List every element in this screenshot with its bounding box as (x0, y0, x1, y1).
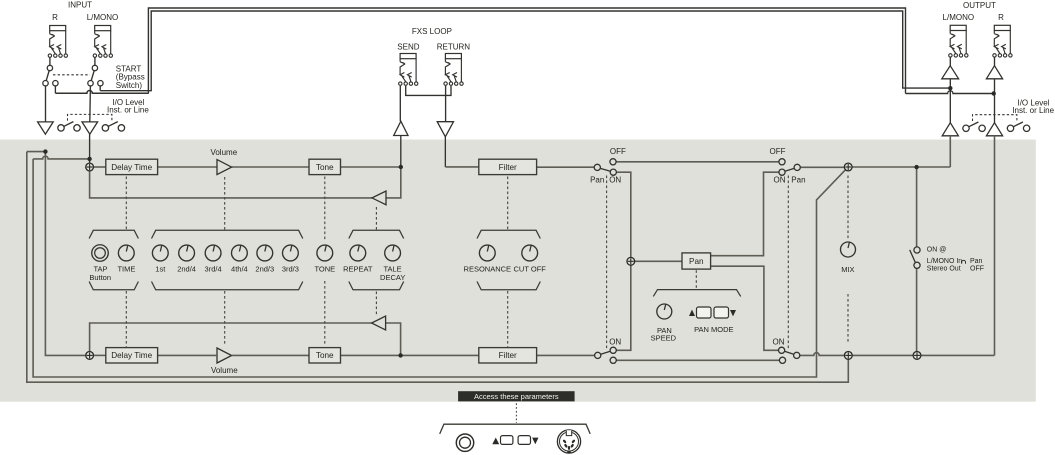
svg-text:RETURN: RETURN (437, 42, 471, 51)
svg-text:PAN MODE: PAN MODE (694, 325, 733, 334)
svg-text:SEND: SEND (397, 42, 419, 51)
svg-text:Delay Time: Delay Time (111, 351, 152, 360)
svg-text:OFF: OFF (770, 147, 786, 156)
svg-text:OUTPUT: OUTPUT (963, 1, 996, 10)
svg-text:L/MONO In: L/MONO In (927, 258, 963, 265)
svg-text:Stereo Out: Stereo Out (927, 266, 961, 273)
svg-text:Pan: Pan (970, 258, 983, 265)
svg-text:Volume: Volume (210, 148, 237, 157)
svg-text:4th/4: 4th/4 (231, 265, 248, 274)
svg-text:ON: ON (609, 337, 621, 346)
svg-text:REPEAT: REPEAT (343, 265, 373, 274)
svg-text:RESONANCE: RESONANCE (464, 265, 512, 274)
svg-text:L/MONO: L/MONO (943, 13, 975, 22)
svg-text:FXS LOOP: FXS LOOP (412, 27, 452, 36)
svg-text:ON: ON (774, 175, 786, 184)
svg-text:3rd/3: 3rd/3 (282, 265, 299, 274)
svg-text:Access these parameters: Access these parameters (474, 392, 559, 401)
svg-text:INPUT: INPUT (68, 1, 92, 10)
svg-text:SPEED: SPEED (651, 334, 677, 343)
svg-text:ON @: ON @ (927, 247, 947, 254)
svg-text:ON: ON (773, 337, 785, 346)
svg-text:Volume: Volume (211, 366, 238, 375)
svg-text:2nd/3: 2nd/3 (255, 265, 274, 274)
svg-text:Pan: Pan (791, 175, 805, 184)
svg-text:Inst. or Line: Inst. or Line (1012, 106, 1054, 115)
svg-text:2nd/4: 2nd/4 (177, 265, 196, 274)
svg-text:CUT OFF: CUT OFF (514, 265, 547, 274)
svg-text:TIME: TIME (117, 265, 135, 274)
svg-text:Tone: Tone (316, 351, 334, 360)
svg-text:MIX: MIX (841, 265, 854, 274)
svg-text:Filter: Filter (499, 351, 517, 360)
svg-text:Pan: Pan (689, 257, 704, 266)
svg-text:3rd/4: 3rd/4 (205, 265, 222, 274)
svg-text:TONE: TONE (314, 265, 335, 274)
svg-text:R: R (998, 13, 1004, 22)
svg-text:DECAY: DECAY (380, 273, 405, 282)
svg-text:Pan: Pan (590, 175, 604, 184)
svg-text:ON: ON (609, 175, 621, 184)
svg-text:Delay Time: Delay Time (111, 163, 152, 172)
svg-text:Switch): Switch) (116, 81, 143, 90)
svg-text:OFF: OFF (970, 266, 984, 273)
svg-text:Filter: Filter (499, 163, 517, 172)
svg-text:Inst. or Line: Inst. or Line (107, 106, 149, 115)
svg-text:Tone: Tone (316, 163, 334, 172)
svg-text:1st: 1st (155, 265, 166, 274)
svg-text:R: R (52, 13, 58, 22)
svg-text:OFF: OFF (610, 147, 626, 156)
svg-text:L/MONO: L/MONO (87, 13, 119, 22)
svg-text:Button: Button (89, 273, 111, 282)
